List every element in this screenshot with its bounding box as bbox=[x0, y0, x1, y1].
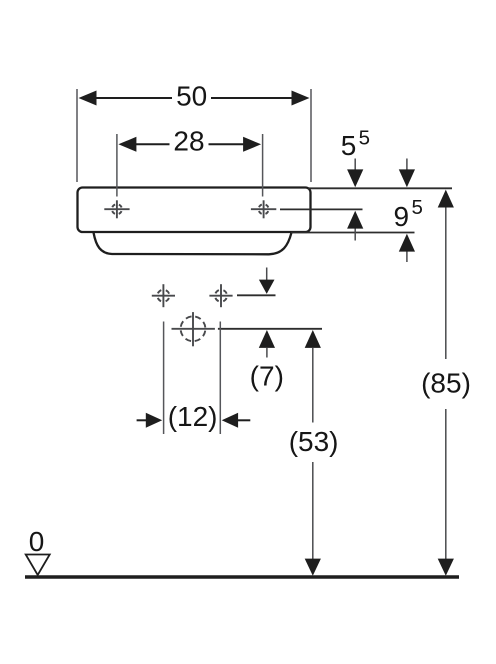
svg-text:5: 5 bbox=[341, 130, 357, 161]
svg-text:(53): (53) bbox=[289, 426, 339, 457]
svg-text:(7): (7) bbox=[250, 361, 284, 392]
svg-text:5: 5 bbox=[359, 127, 370, 150]
svg-text:50: 50 bbox=[176, 80, 207, 111]
svg-text:5: 5 bbox=[412, 196, 423, 219]
svg-text:28: 28 bbox=[173, 125, 204, 156]
svg-text:(85): (85) bbox=[421, 368, 471, 399]
svg-text:9: 9 bbox=[394, 201, 410, 232]
svg-text:(12): (12) bbox=[168, 401, 218, 432]
svg-text:0: 0 bbox=[29, 526, 45, 557]
